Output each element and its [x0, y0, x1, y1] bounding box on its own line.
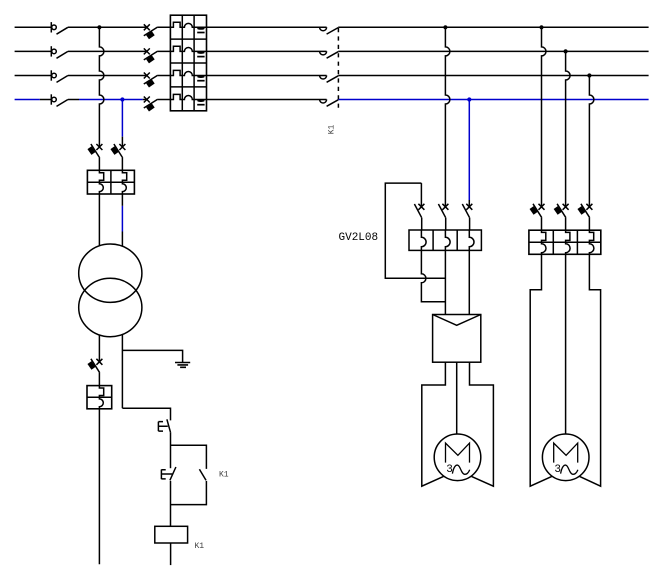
- fuse switch F3: [87, 359, 102, 373]
- push button S1 (stop): [158, 419, 170, 432]
- fuse switch F4 pole 2: [554, 204, 569, 218]
- wire left drop from L1 with hops: [99, 27, 104, 147]
- disconnector Q1 pole 3: [51, 70, 68, 82]
- meter block P4 column 3 symbols: [589, 230, 594, 254]
- wire U1 bottom right: [470, 362, 494, 486]
- transformer T1 primary winding: [79, 244, 142, 302]
- wire earth branch: [122, 350, 182, 362]
- wire L2 bus: [15, 50, 649, 52]
- meter block P2 column 1 symbols: [99, 170, 103, 194]
- breaker Q2 pole 3: [462, 204, 472, 218]
- ground: [175, 363, 190, 368]
- svg-text:K1: K1: [195, 542, 205, 551]
- label K1 (rotated, contactor): [328, 124, 337, 134]
- motor M2: [542, 434, 589, 481]
- transformer T1 secondary winding: [79, 278, 142, 336]
- wire S2 to coil: [170, 481, 172, 526]
- wire S1 to S2: [170, 433, 172, 469]
- disconnector Q1 pole 2: [51, 46, 68, 58]
- fuse switch F4 pole 1: [530, 204, 545, 218]
- wire block P4 bottom middle: [565, 254, 567, 434]
- thermal block GV2 outline: [409, 230, 481, 250]
- wire block P2 to transformer primary left: [98, 194, 100, 246]
- wire control feed: [122, 408, 170, 420]
- label K1 (coil): [195, 542, 205, 551]
- fuse switch F1 pole 4: [144, 97, 158, 112]
- contact K1 auxiliary: [199, 469, 206, 480]
- svg-text:3: 3: [554, 464, 561, 476]
- wire branch to K1 aux contact: [171, 445, 207, 469]
- wire drop A from L1 with hops: [445, 27, 450, 206]
- wire pole 1 bottom with hop: [421, 250, 445, 301]
- wire drop D2 from L2: [566, 51, 571, 206]
- meter block P4 column 2 symbols: [566, 230, 571, 254]
- breaker Q2 pole 1: [414, 204, 424, 218]
- meter block P2 column 2 symbols: [122, 170, 126, 194]
- wire below coil: [170, 543, 172, 565]
- wire F2.1 to block: [98, 158, 100, 170]
- wire K1 aux return: [171, 481, 207, 505]
- wire U1 bottom left: [422, 362, 446, 486]
- meter block P3 outline: [87, 386, 112, 409]
- fuse switch F2 pole 1: [87, 144, 102, 158]
- meter block P3 symbols: [99, 386, 103, 409]
- meter block P1 row 3 symbols: [170, 70, 206, 80]
- meter block P1 row 2 symbols: [170, 46, 206, 56]
- wire F3 to block P3: [98, 373, 100, 386]
- label K1 (aux contact): [219, 471, 229, 480]
- fuse switch F1 pole 3: [144, 73, 158, 88]
- wire loop to pole 1: [420, 183, 422, 207]
- coil K1: [155, 526, 188, 543]
- wire pole 3 bottom to box: [468, 250, 470, 314]
- wire secondary left to fuse F3: [98, 335, 100, 362]
- motor M1: [434, 434, 481, 481]
- node junction dot L1 drop A: [443, 25, 447, 29]
- node junction dot L1 drop D1: [539, 25, 543, 29]
- wire block P2 to transformer primary right (blue section): [121, 194, 123, 246]
- push button S2 (start): [161, 467, 176, 480]
- contactor K1 pole 3: [320, 76, 339, 83]
- disconnector Q1 pole 1: [51, 22, 68, 34]
- meter block P4 column 1 symbols: [542, 230, 547, 254]
- wire N bus (blue segments): [15, 99, 649, 101]
- wire drop D3 from L3: [589, 76, 594, 207]
- node junction dot L1 left drop: [97, 25, 101, 29]
- wire N left drop: [121, 100, 123, 148]
- wire left control rail: [98, 409, 100, 565]
- disconnector Q1 pole 4: [51, 94, 68, 106]
- node junction dot L3 drop D3: [587, 73, 591, 77]
- wire secondary right down: [121, 334, 123, 408]
- wire L1 bus: [15, 26, 649, 28]
- fuse switch F4 pole 3: [577, 204, 592, 218]
- contactor K1 pole 1: [320, 27, 339, 34]
- node junction dot N drop B (blue): [467, 97, 471, 101]
- label GV2L08: [339, 232, 379, 244]
- converter box U1: [433, 315, 481, 363]
- svg-text:K1: K1: [219, 471, 229, 480]
- meter block P1: [170, 15, 206, 111]
- meter block P2 outline: [87, 170, 134, 194]
- contactor K1 pole 4: [320, 100, 339, 107]
- wire Q2 poles to thermal block: [422, 218, 470, 230]
- wire U1 bottom middle: [456, 362, 458, 434]
- contactor K1 mechanical link (dashed): [337, 28, 339, 110]
- node junction dot N left drop (blue): [120, 97, 124, 101]
- fuse switch F1 pole 2: [144, 48, 158, 63]
- wire drop B from N: [468, 100, 470, 207]
- wire block P4 bottom left: [530, 254, 552, 486]
- contactor K1 pole 2: [320, 51, 339, 58]
- svg-text:K1: K1: [328, 124, 337, 134]
- thermal block GV2 column symbols: [421, 230, 474, 250]
- meter block P1 row 1 symbols: [170, 22, 206, 32]
- fuse switch F2 pole 2: [110, 144, 125, 158]
- wire drop D1 from L1: [542, 27, 547, 206]
- fuse switch F1 pole 1: [144, 24, 158, 39]
- wire L3 bus: [15, 75, 649, 77]
- wire F2.2 to block: [121, 158, 123, 170]
- breaker Q2 pole 2: [438, 204, 448, 218]
- svg-text:GV2L08: GV2L08: [339, 232, 379, 244]
- meter block P4 outline: [529, 230, 601, 254]
- wire pole 2 bottom to box: [444, 250, 446, 314]
- wire F4 poles to block P4: [542, 218, 590, 231]
- svg-text:3: 3: [446, 464, 453, 476]
- wire GV2 trip loop: [385, 183, 445, 278]
- wire block P4 bottom right: [580, 254, 601, 486]
- node junction dot L2 drop D2: [564, 49, 568, 53]
- meter block P1 row 4 symbols: [170, 94, 206, 104]
